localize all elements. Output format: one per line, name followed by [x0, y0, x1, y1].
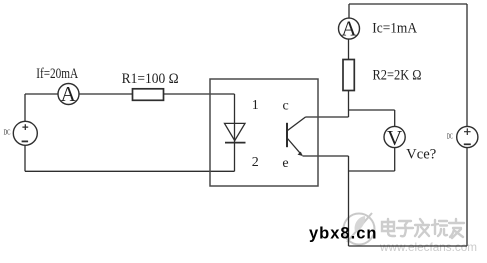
svg-text:R2=2K Ω: R2=2K Ω — [373, 67, 422, 83]
svg-text:e: e — [282, 156, 288, 171]
svg-text:Ic=1mA: Ic=1mA — [372, 20, 417, 36]
svg-text:V: V — [387, 126, 402, 150]
svg-text:ybx8.cn: ybx8.cn — [309, 224, 377, 242]
svg-text:www.elecfans.com: www.elecfans.com — [379, 240, 477, 254]
svg-text:Vce?: Vce? — [406, 147, 436, 163]
svg-text:DC: DC — [4, 128, 11, 137]
svg-text:If=20mA: If=20mA — [36, 66, 79, 82]
svg-text:R1=100 Ω: R1=100 Ω — [122, 71, 179, 87]
svg-text:DC: DC — [447, 133, 453, 141]
svg-text:1: 1 — [252, 98, 259, 113]
svg-text:A: A — [341, 17, 357, 41]
svg-text:A: A — [61, 82, 77, 106]
svg-text:2: 2 — [252, 155, 259, 170]
svg-text:c: c — [282, 99, 288, 114]
